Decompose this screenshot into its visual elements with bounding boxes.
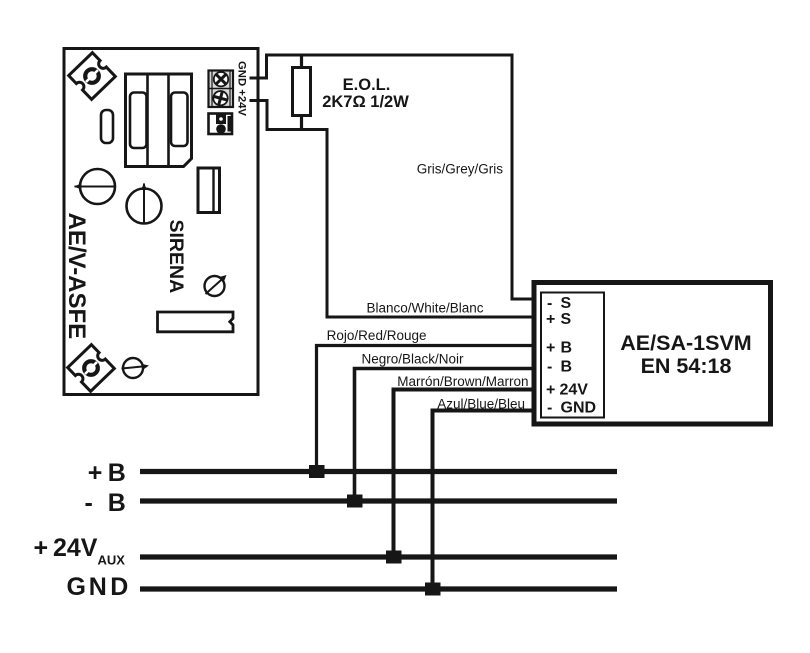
resistor EOL 2K7 top lead <box>300 55 303 67</box>
component pill (small electrolytic) <box>101 110 113 143</box>
screw mount M2 (bottom-left) <box>68 345 115 392</box>
bus GND <box>140 586 617 591</box>
control panel box AE/SA-1SVM <box>534 283 771 425</box>
svg-text:Gris/Grey/Gris: Gris/Grey/Gris <box>417 162 503 177</box>
trimmer VR1 (circle with arrow, bottom) <box>123 358 143 378</box>
terminal block TB1 body <box>209 71 234 108</box>
connector CN1 (right middle) <box>198 168 220 213</box>
transformer T1 right window <box>171 93 188 147</box>
svg-text:Rojo/Red/Rouge: Rojo/Red/Rouge <box>327 328 427 343</box>
terminal block TB1 screw +24V <box>212 89 230 107</box>
svg-text:+24V: +24V <box>34 534 98 562</box>
terminal block TB1 screw GND <box>211 69 231 89</box>
jumper block J1 <box>209 114 233 135</box>
resistor EOL 2K7 body <box>293 68 311 116</box>
transformer T1 left window <box>130 93 147 149</box>
wire Azul: GND bus to -GND terminal <box>433 411 535 590</box>
svg-text:GND: GND <box>67 573 129 601</box>
screw head of M1 <box>85 69 99 83</box>
wire Marron: +24Vaux bus to +24V terminal <box>394 390 535 558</box>
svg-text:+B: +B <box>88 459 126 487</box>
bus -B <box>140 498 617 503</box>
svg-text:AE/SA-1SVM: AE/SA-1SVM <box>620 331 751 355</box>
svg-text:Blanco/White/Blanc: Blanco/White/Blanc <box>366 301 483 316</box>
svg-text:AE/V-ASFE: AE/V-ASFE <box>63 213 90 340</box>
junction +B <box>309 465 325 478</box>
svg-text:SIRENA: SIRENA <box>165 220 187 294</box>
diode D1 (circle with slash) <box>205 276 225 296</box>
svg-text:2K7Ω 1/2W: 2K7Ω 1/2W <box>322 93 409 111</box>
svg-text:E.O.L.: E.O.L. <box>343 76 391 94</box>
transformer T1 bobbin column <box>146 74 149 167</box>
junction GND <box>425 583 441 596</box>
resistor EOL 2K7 bottom lead <box>300 116 303 130</box>
screw mount M1 (top-left) <box>69 53 116 100</box>
svg-text:AUX: AUX <box>98 553 126 568</box>
wire Blanco: +24V terminal via EOL to +S <box>250 101 535 318</box>
capacitor C1 (circle with arrow) <box>80 169 115 204</box>
sounder PCB board AE/V-ASFE outline <box>64 49 258 395</box>
bus +B <box>140 469 617 474</box>
transformer T1 body <box>126 74 192 167</box>
junction -B <box>347 495 363 508</box>
svg-text:GND +24V: GND +24V <box>236 61 248 116</box>
svg-text:EN 54:18: EN 54:18 <box>641 354 732 378</box>
svg-text:Negro/Black/Noir: Negro/Black/Noir <box>361 352 464 367</box>
svg-text:Marrón/Brown/Marron: Marrón/Brown/Marron <box>397 374 528 389</box>
wire Gris: GND terminal to -S <box>250 55 535 299</box>
screw head of M2 <box>84 361 98 375</box>
svg-text:+24V: +24V <box>546 382 588 399</box>
svg-text:-B: -B <box>547 359 572 376</box>
wire Rojo: +B bus to +B terminal <box>317 346 535 472</box>
terminal strip of AE/SA-1SVM <box>541 293 604 418</box>
capacitor C2 (circle with arrow) <box>127 189 162 224</box>
connector CN2 (long, bottom) <box>158 312 234 332</box>
wire Negro: -B bus to -B terminal <box>355 369 535 502</box>
junction +24Vaux <box>386 551 402 564</box>
bus +24Vaux <box>140 554 617 559</box>
